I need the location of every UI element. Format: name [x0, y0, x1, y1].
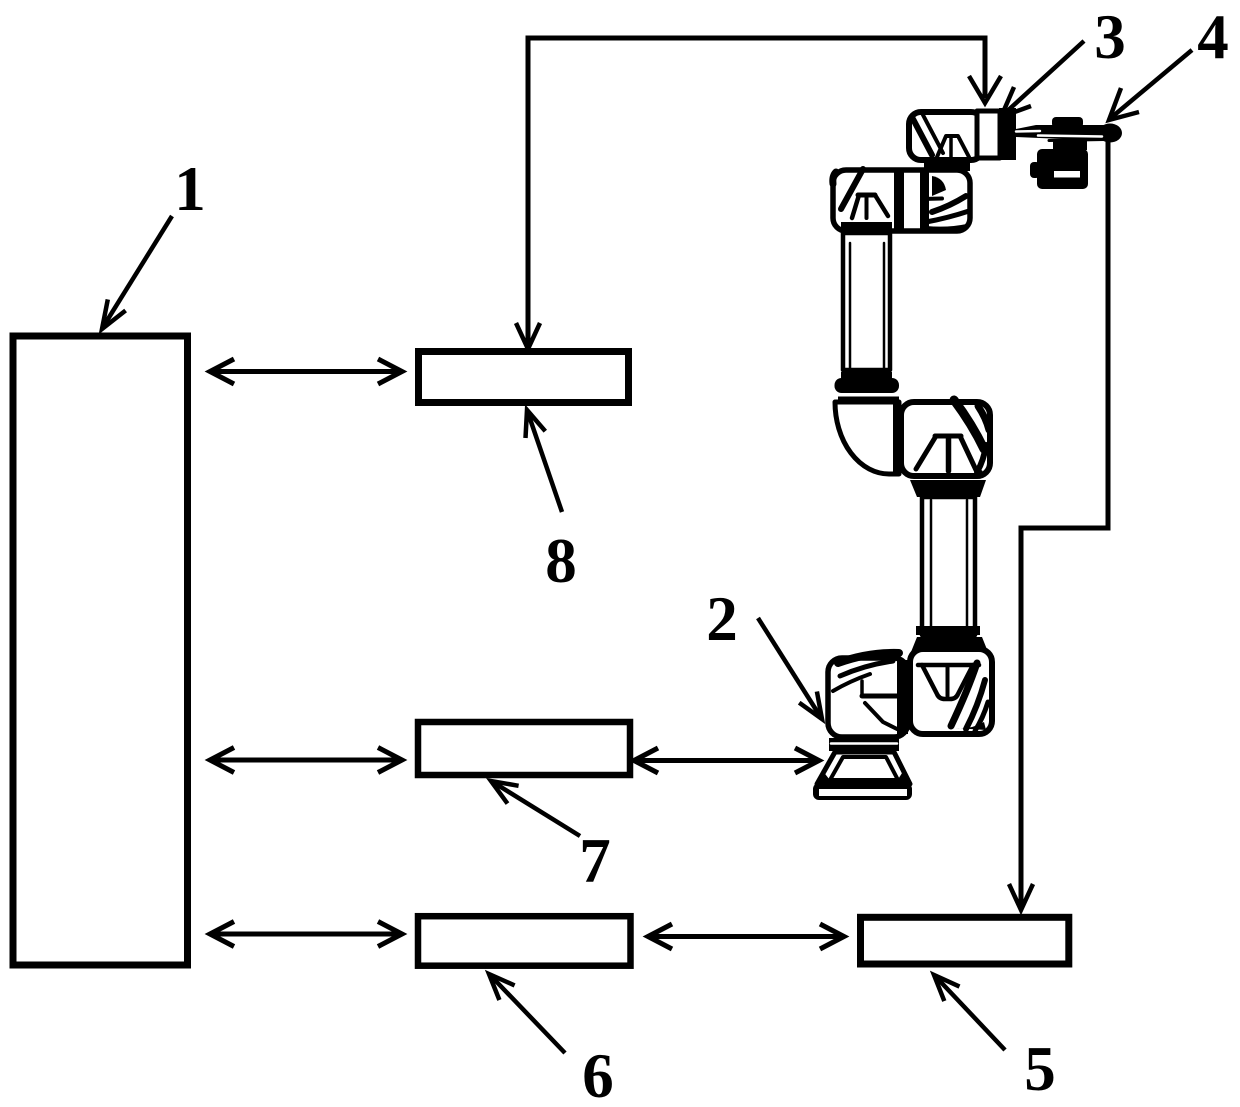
double arrow box7 - robot base — [634, 748, 819, 773]
double arrow box1 - box7 — [210, 748, 402, 773]
box 8 — [419, 352, 629, 403]
arrow for label 5 — [937, 978, 1005, 1050]
wrist white band — [977, 111, 1000, 158]
box 5 — [861, 917, 1069, 964]
base plate — [813, 783, 912, 800]
wire from box 8 up and right to robot wrist — [528, 38, 985, 352]
arrow for label 7 — [496, 784, 580, 836]
arrow for label 4 — [1112, 50, 1192, 117]
wire from robot tool down to box 5 — [1021, 140, 1108, 910]
arrow for label 6 — [492, 977, 565, 1053]
joint interface between wrist joints — [924, 158, 970, 171]
tool gripper (black, below spindle) — [1030, 141, 1088, 189]
box 7 — [418, 722, 630, 775]
double arrow box6 - box5 — [648, 924, 844, 949]
svg-text:4: 4 — [1197, 2, 1229, 72]
double arrow box1 - box8 — [210, 359, 402, 384]
elbow quarter-circle — [835, 402, 899, 474]
robot wrist joint (top, label 3 target) — [909, 112, 983, 160]
svg-text:5: 5 — [1024, 1034, 1056, 1104]
svg-text:7: 7 — [579, 826, 611, 896]
forearm tube — [922, 497, 975, 635]
svg-text:2: 2 — [706, 584, 738, 654]
svg-text:8: 8 — [545, 526, 577, 596]
box 6 — [418, 916, 631, 966]
shoulder joint left (label 2 target) — [828, 653, 908, 737]
joint ring below elbow — [910, 478, 986, 498]
arrow for label 3 — [1004, 41, 1084, 114]
elbow cap (dark band) — [841, 372, 892, 380]
base pedestal — [817, 752, 910, 784]
arrowhead into box 8 top — [516, 323, 540, 349]
base neck bands — [829, 738, 899, 751]
shoulder joint right square — [910, 649, 992, 734]
arrow for label 1 — [103, 216, 172, 327]
tool flange (black bar) — [999, 108, 1016, 160]
tool spindle (label 4 target) — [1016, 117, 1122, 143]
box 1 (main controller) — [13, 336, 188, 965]
joint ring above shoulder — [911, 626, 988, 652]
svg-text:6: 6 — [582, 1041, 614, 1107]
arrow for label 2 — [758, 618, 820, 716]
elbow joint square — [901, 400, 990, 476]
arrowhead onto robot wrist — [969, 76, 1001, 103]
wrist joint 2 assembly — [833, 169, 970, 231]
svg-text:3: 3 — [1094, 2, 1126, 72]
svg-text:1: 1 — [174, 154, 206, 224]
arrowhead into box 5 top — [1009, 884, 1033, 910]
arrow for label 8 — [528, 413, 562, 512]
upper arm tube — [841, 222, 892, 370]
double arrow box1 - box6 — [210, 922, 402, 947]
